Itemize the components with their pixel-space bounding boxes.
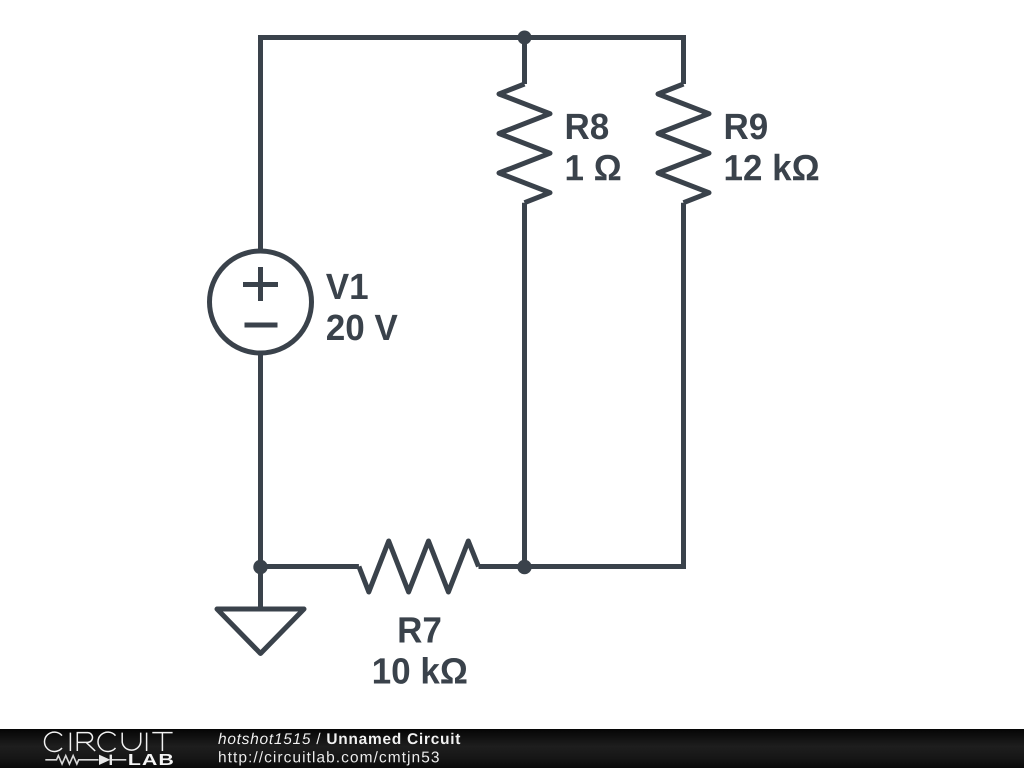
label V1 value 20 V bbox=[327, 314, 398, 340]
footer url line bbox=[219, 751, 439, 765]
logo letter C bbox=[98, 732, 116, 751]
wire: ground stem bbox=[258, 567, 263, 610]
ground bbox=[217, 609, 304, 654]
logo letter C bbox=[44, 732, 62, 751]
V1 minus sign bbox=[245, 323, 278, 328]
logo letter I bbox=[69, 733, 71, 751]
wire: V1 bottom lead to bottom rail bbox=[258, 352, 263, 567]
wire: bottom rail right (junction to R9) bbox=[525, 564, 687, 569]
footer title: Unnamed Circuit bbox=[327, 733, 460, 744]
wire: left vertical from top rail to V1 bbox=[258, 38, 263, 253]
logo resistor squiggle bbox=[45, 756, 98, 764]
resistor R9 bbox=[658, 84, 709, 203]
logo LAB text bbox=[129, 754, 173, 765]
label V1 name bbox=[326, 274, 368, 299]
junction node: top (R8 tap) bbox=[518, 31, 532, 45]
wire: R9 top lead bbox=[681, 38, 686, 85]
junction node: bottom left (V1/ground) bbox=[253, 560, 267, 574]
footer title: slash separator bbox=[316, 733, 320, 744]
wire: R8 bottom lead bbox=[522, 203, 527, 567]
label R8 value 1 ohm bbox=[567, 155, 621, 181]
wire: R7 to middle junction bbox=[479, 564, 525, 569]
label R8 name bbox=[567, 113, 608, 139]
logo diode symbol bbox=[99, 755, 110, 765]
logo letter U bbox=[122, 733, 141, 750]
wire: R9 bottom lead bbox=[681, 203, 686, 567]
logo letter I bbox=[146, 733, 148, 751]
V1 plus sign bbox=[243, 267, 278, 301]
resistor R8 bbox=[499, 84, 550, 203]
CircuitLab logo wordmark CIRCUIT bbox=[44, 732, 172, 751]
resistor R7 bbox=[359, 541, 479, 592]
footer title: hotshot1515 bbox=[218, 733, 310, 744]
label R9 value 12 kohm bbox=[726, 154, 819, 181]
junction node: bottom middle (R7/R8) bbox=[517, 560, 531, 574]
wire: R8 top lead bbox=[522, 38, 527, 85]
label R7 name bbox=[399, 617, 440, 642]
logo letter T bbox=[152, 733, 172, 751]
logo letter R bbox=[77, 733, 95, 751]
wire: bottom rail left (V1 to R7) bbox=[261, 564, 359, 569]
wire: top rail bbox=[258, 35, 686, 40]
label R7 value 10 kohm bbox=[374, 657, 467, 684]
label R9 name bbox=[726, 113, 767, 139]
voltage source V1 bbox=[210, 251, 312, 353]
